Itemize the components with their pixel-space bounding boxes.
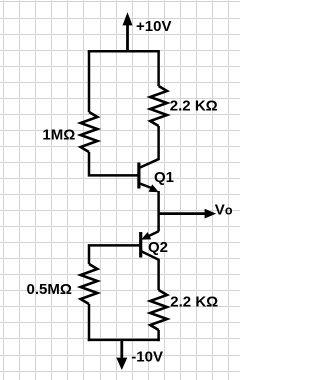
- power -10V: [116, 340, 127, 370]
- power +10V: [123, 12, 133, 51]
- svg-text:Q2: Q2: [148, 239, 168, 256]
- wire R4 to bottom rail: [157, 330, 160, 341]
- wire Q1 emitter to Q2 emitter: [157, 191, 160, 232]
- output arrow Vo: [159, 209, 217, 219]
- wire bottom rail: [88, 339, 160, 342]
- wire top rail: [88, 50, 160, 53]
- svg-text:2.2 KΩ: 2.2 KΩ: [170, 98, 218, 115]
- wire R2 to Q1 collector: [157, 126, 160, 160]
- svg-text:1MΩ: 1MΩ: [42, 127, 75, 144]
- resistor 2.2 K top: [150, 86, 167, 126]
- wire left rail to R1: [88, 51, 91, 112]
- wire Q2 collector to R4: [157, 259, 160, 290]
- wire Q2 base to R3: [89, 245, 141, 264]
- wire R3 to bottom rail: [88, 304, 91, 341]
- svg-text:0.5MΩ: 0.5MΩ: [27, 281, 72, 298]
- transistor Q1: [139, 159, 159, 192]
- resistor 1M: [81, 112, 98, 152]
- svg-text:2.2 KΩ: 2.2 KΩ: [170, 294, 218, 311]
- svg-text:Q1: Q1: [154, 169, 174, 186]
- resistor 0.5M: [81, 264, 98, 304]
- resistor 2.2 K bottom: [150, 290, 167, 330]
- svg-text:+10V: +10V: [136, 18, 171, 35]
- svg-text:Vo: Vo: [215, 201, 233, 218]
- wire R1 to Q1 base: [89, 152, 138, 175]
- wire right rail to R2: [157, 51, 160, 86]
- transistor Q2: [141, 231, 160, 260]
- svg-text:-10V: -10V: [131, 348, 163, 365]
